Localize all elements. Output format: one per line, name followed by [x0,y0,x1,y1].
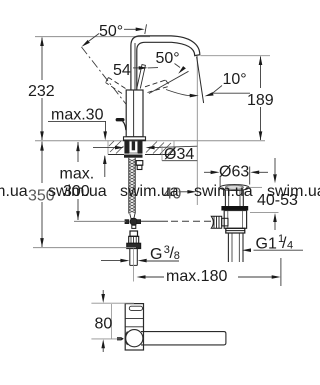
dimension 350 arrows [40,142,44,151]
svg-text:max.30: max.30 [51,107,104,124]
dimension Ø34 arrows and lines [93,147,116,149]
50 deg lower label leader line [149,71,189,93]
svg-text:G: G [150,246,162,263]
drain flange inner ellipse [225,185,243,189]
svg-text:8: 8 [174,250,180,262]
lever raised (tilted) position [137,65,146,89]
dimension G1 1/4 leader [254,249,304,251]
faucet spout inner vertical line [134,43,136,90]
dash-dot 50 deg axis line [82,47,139,120]
svg-text:189: 189 [247,92,274,109]
swivel arc with arrow [166,90,190,96]
hose end fitting stack (G3/8) [127,231,141,249]
bottom view divider lines [125,317,143,319]
drain tailpipe G1 1/4 [228,233,243,262]
hose end tube [130,249,138,266]
dimension 40 (pop-up rod) leader [179,191,189,193]
bottom view aerator slot [129,306,142,310]
G3/8 label underline [147,260,179,262]
drain rubber seal (solid black) [221,206,248,211]
svg-text:Ø34: Ø34 [164,146,194,163]
dimension 232 line [41,38,43,141]
svg-text:54: 54 [113,62,131,79]
dimension 189 arrows [259,56,263,65]
svg-text:80: 80 [95,316,113,333]
max.180 right reference tick [280,258,282,286]
hose centre line extension [133,249,135,282]
svg-text:4: 4 [287,240,293,252]
50 deg top label arrow to tick [124,28,137,30]
dimension 189 line [260,57,262,141]
10 deg tilted stream line [197,57,204,104]
svg-text:swim.ua: swim.ua [267,183,320,200]
drain flange outer ellipse [220,185,249,191]
drain upper body [225,190,243,206]
svg-text:50°: 50° [156,50,180,67]
bottom view set screw tick (black) [117,337,124,340]
faucet body centre line [133,90,135,137]
Ø34 label underline [162,160,197,162]
drain body below seal [224,211,246,229]
faucet spout outer profile [131,36,200,90]
counter bottom edges [108,154,124,156]
svg-text:50°: 50° [99,23,123,40]
bottom view left projection line [111,304,113,339]
dimension max.300 arrows [76,142,80,151]
dimension 80 [102,290,104,294]
dimension 232 arrows [40,37,44,46]
40-53 lower extension line [250,212,279,214]
dashed rotated spout stub right [145,80,170,93]
dimension max.30 [48,120,106,122]
drain lower ring band [226,228,245,233]
189 top extension line from spout tip [201,55,271,57]
vertical reference line from spout outlet [196,56,198,205]
bottom view lever pivot outer arc [125,332,127,345]
svg-text:G1: G1 [256,236,277,253]
faucet base plate [124,137,146,141]
braided flexible hose [129,158,135,214]
wire top extension line (232 top reference) [35,36,150,38]
flange side extension line [246,186,262,188]
pop-up rod ball coupling at hose [125,218,141,228]
80 extension lines [91,302,134,304]
threaded shank and mounting nut below counter [124,141,142,154]
svg-text:swim.ua: swim.ua [0,183,28,200]
counter hatch left of faucet [109,141,174,154]
dimension max.300 line [77,142,79,220]
dimension 54 arrow [133,67,140,69]
pop-up rod knurled knob at drain [211,216,228,228]
dimension G3/8 [101,260,121,262]
watermark row [0,183,320,200]
dimension 40-53 [274,158,276,174]
tilted tick at spout top [145,24,147,34]
50 deg top label leader to dash-dot axis [89,34,99,42]
svg-text:max.: max. [60,166,95,183]
second hose stub fitting [136,161,143,170]
dimension 350 line [41,142,43,248]
bottom view lever bar [141,332,226,345]
lever handle side view [117,118,123,121]
svg-text:Ø63: Ø63 [219,164,249,181]
dimension max.180 [145,276,164,278]
svg-text:max.180: max.180 [166,268,227,285]
washer bar under shank [124,155,143,158]
svg-text:10°: 10° [223,71,247,88]
faucet body [126,90,143,137]
bottom view lever pivot circle [126,330,143,347]
svg-text:swim.ua: swim.ua [120,183,179,200]
10 deg label leader [213,92,251,94]
dimension Ø63 [219,176,221,187]
svg-text:swim.ua: swim.ua [194,183,253,200]
pop-up rod horizontal line [74,220,126,222]
350 bottom reference line [33,247,136,249]
svg-text:232: 232 [28,83,55,100]
svg-text:swim.ua: swim.ua [48,183,107,200]
counter top surface line [35,140,265,142]
bottom view body rectangle [125,304,143,350]
dashed rotated spout stub left [106,78,126,94]
hose-to-rod connector taper [130,214,135,219]
